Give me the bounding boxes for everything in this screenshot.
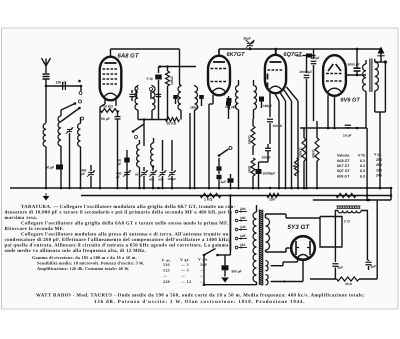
junction bus x291.5 (290, 187, 293, 190)
resistor 10 Kohm AVC (99, 107, 101, 111)
wire CD right down (366, 214, 368, 260)
potentiometer volume (295, 158, 299, 176)
svg-text:110: 110 (163, 262, 170, 267)
svg-text:6K7GT: 6K7GT (227, 52, 246, 58)
wire B+ down (356, 48, 359, 51)
svg-text:Sensibilità media: 18 microvol: Sensibilità media: 18 microvolt. Potenza… (37, 260, 144, 265)
wire cathode bus 6V6 (300, 127, 367, 129)
wire top B+ bus (219, 48, 382, 50)
junction bus x279 (278, 187, 281, 190)
svg-text:6Q7 GT: 6Q7 GT (337, 169, 351, 173)
wire bottom right bus (310, 278, 337, 280)
junction bus x172 (171, 187, 174, 190)
svg-text:—: — (199, 279, 205, 284)
svg-text:5Y3 GT: 5Y3 GT (288, 224, 311, 231)
wire IF1 bottom bus (138, 119, 167, 121)
junction bus x153 (152, 187, 155, 190)
capacitor 0.1 uF screen (158, 67, 160, 74)
svg-text:50µF: 50µF (244, 37, 251, 41)
junction bus x285.5 (284, 187, 287, 190)
svg-text:10 µF: 10 µF (343, 134, 352, 138)
capacitor 500 pF mains (222, 265, 229, 270)
power transformer filament winding 2 (266, 275, 269, 285)
svg-text:condensatore di 260 pF. Effett: condensatore di 260 pF. Effettuare l'all… (5, 237, 231, 243)
wire plate loop rect (286, 217, 320, 219)
wire tap bar bottom (229, 251, 231, 256)
wire HV bottom (266, 251, 287, 253)
wire 6V6 leads (327, 95, 329, 128)
power transformer filament winding 1 (266, 261, 269, 271)
svg-text:110: 110 (240, 243, 245, 247)
tube 6A8 GT (U1, converter) (100, 57, 122, 101)
resistor 500 Kohm (315, 138, 319, 161)
svg-text:6V6 GT: 6V6 GT (341, 98, 361, 104)
capacitor switch row b (217, 175, 222, 180)
svg-text:150KΩ: 150KΩ (299, 147, 303, 158)
junction bus x158.5 (157, 187, 160, 190)
junction bus x306.5 (305, 187, 308, 190)
junction bus x100 (99, 187, 102, 190)
wire bus second (81, 195, 391, 197)
trimmer 490 uF (124, 171, 129, 173)
IF2 cap left (173, 95, 178, 99)
capacitor 500 uF plate (306, 54, 312, 58)
svg-text:220: 220 (240, 207, 246, 211)
speaker arrow (380, 50, 382, 58)
power transformer primary (253, 212, 256, 282)
trimmer 50 uF top (247, 42, 253, 44)
capacitor 8 uF a (332, 263, 338, 265)
svg-text:Gamma di ricezione: da 185 a 5: Gamma di ricezione: da 185 a 580 m e da … (32, 255, 137, 260)
svg-text:TARATURA. — Collegare l'oscill: TARATURA. — Collegare l'oscillatore modu… (21, 204, 236, 210)
svg-text:6.3: 6.3 (360, 159, 365, 163)
trimmer padder 3 (160, 171, 165, 173)
coil L3 oscillator grid (78, 124, 81, 147)
svg-text:—: — (162, 273, 168, 278)
coil L4 oscillator (137, 144, 140, 167)
svg-text:densatore di 10.000 pF e tarar: densatore di 10.000 pF e tarare il secon… (5, 209, 233, 215)
resistor 50 Kohm diode (251, 126, 255, 146)
IF2 primary winding (178, 86, 181, 110)
capacitor 50 uF bypass (115, 116, 121, 118)
svg-text:V pl.: V pl. (374, 153, 382, 157)
wire CD left down (334, 214, 336, 262)
svg-text:125: 125 (163, 267, 170, 272)
svg-text:8µF: 8µF (371, 265, 377, 269)
tube 6K7 GT (U2, IF amplifier) (208, 56, 230, 96)
svg-text:400: 400 (149, 178, 154, 182)
switch osc contacts (132, 130, 135, 133)
capacitor 8 uF b (366, 261, 372, 263)
svg-text:100 µF: 100 µF (56, 81, 68, 85)
svg-text:Ritoccare la seconda MF.: Ritoccare la seconda MF. (5, 226, 64, 232)
wire speaker right (375, 61, 381, 63)
choke CD winding (338, 211, 361, 213)
svg-text:500 pF: 500 pF (232, 270, 242, 274)
svg-text:20000µF: 20000µF (300, 70, 313, 74)
svg-text:5000 µF: 5000 µF (348, 63, 360, 67)
resistor 10 Kohm screen (167, 67, 169, 72)
wire B+ out (303, 281, 310, 283)
resistor 1 Kohm (200, 193, 221, 197)
svg-text:1 KΩ: 1 KΩ (204, 198, 212, 202)
svg-text:500: 500 (297, 54, 303, 58)
junction bus x253 (252, 187, 255, 190)
svg-text:—: — (180, 273, 186, 278)
ground 500 pF (221, 278, 229, 283)
wire vert e (297, 101, 299, 188)
power transformer tap bar (229, 211, 231, 251)
capacitor 20000 uF (306, 57, 308, 73)
junction bus x258.5 (257, 187, 260, 190)
wire vert c (285, 101, 287, 188)
svg-text:50: 50 (135, 173, 139, 177)
svg-text:pF: pF (81, 172, 85, 176)
antenna series capacitor (43, 73, 50, 75)
svg-text:V gn.: V gn. (198, 257, 209, 262)
switch mains (203, 254, 206, 257)
svg-text:100 µF: 100 µF (273, 124, 283, 128)
wire screen bus y66 (159, 66, 197, 68)
junction bus x219 (218, 187, 221, 190)
tube 6V6 GT (U4, output) (323, 55, 346, 96)
capacitor 50 uF cathode block (56, 165, 63, 170)
capacitor switch row a (217, 166, 222, 171)
junction bus x238.5 (237, 187, 240, 190)
capacitor 500 uF g (313, 49, 315, 59)
svg-text:8µF: 8µF (338, 266, 344, 270)
svg-text:— 12: — 12 (180, 279, 191, 284)
svg-text:µF: µF (118, 162, 122, 166)
coil L1 antenna primary (43, 124, 46, 147)
IF2 secondary winding (195, 86, 198, 110)
svg-text:50 µF: 50 µF (46, 166, 55, 170)
wire mains entry (203, 255, 205, 285)
wire padder link (162, 140, 164, 150)
resistor 20 Kohm (166, 118, 180, 122)
svg-text:1µF: 1µF (221, 180, 227, 184)
trimmer 400 pF (88, 171, 94, 173)
tube 6Q7 GT (U3, detector/AF) (265, 55, 286, 93)
junction bus x139.5 (138, 187, 141, 190)
svg-text:20 KΩ: 20 KΩ (167, 121, 177, 125)
choke CD core (337, 205, 361, 207)
capacitor 10 uF cathode (347, 118, 349, 123)
capacitor 100 pF coupling (62, 82, 64, 90)
svg-text:180µF: 180µF (168, 177, 177, 181)
IF1 trim cap left (129, 93, 134, 95)
IF3 primary winding (236, 86, 239, 110)
svg-text:245: 245 (376, 174, 382, 178)
wire 6K7 plate riser (218, 49, 220, 56)
capacitor 100 uF diode a (267, 118, 273, 120)
svg-text:6V6 GT: 6V6 GT (337, 174, 350, 178)
capacitor 6K7 cathode (226, 101, 231, 106)
svg-text:poi quello d'entrata. Allinear: poi quello d'entrata. Allineare il circu… (5, 242, 229, 248)
wire 6A8 cathode leads (104, 100, 106, 105)
wire bottom right corner (377, 278, 391, 280)
junction bus x298 (297, 187, 300, 190)
svg-text:140: 140 (240, 225, 246, 229)
wire x367 down (366, 128, 368, 200)
junction bus x117.5 (116, 187, 119, 190)
svg-text:10000µF: 10000µF (263, 172, 276, 176)
antenna (42, 58, 51, 66)
svg-text:Valvola: Valvola (337, 154, 350, 158)
wire 5Y3 filament down (297, 257, 299, 263)
wire right edge vert (376, 200, 378, 279)
IF1 secondary winding (152, 86, 155, 110)
svg-text:220: 220 (163, 279, 170, 284)
wire antenna node (46, 85, 81, 87)
junction bus x61 (60, 187, 63, 190)
capacitor 10000 uF (256, 169, 262, 174)
trimmer padder 1 (141, 171, 146, 173)
junction bus x46 (45, 187, 48, 190)
trimmer input (67, 128, 72, 130)
IF1 trim cap right (156, 93, 161, 95)
IF2 cap right (199, 95, 204, 99)
wire 6V6 plate (346, 74, 366, 76)
resistor 1 Mohm vol (251, 158, 255, 176)
resistor mains drop (336, 193, 356, 197)
output transformer secondary (375, 62, 379, 91)
svg-text:Collegare l'oscillatore modula: Collegare l'oscillatore modulato alla pr… (21, 231, 229, 237)
IF3 secondary winding (254, 86, 257, 110)
junction bus x270 (269, 187, 272, 190)
svg-text:—: — (199, 273, 205, 278)
svg-text:µF: µF (116, 175, 120, 179)
wire HV top to plate loop (266, 213, 287, 215)
wire osc join (143, 120, 145, 147)
wire x391 vert (390, 188, 392, 200)
wire 6Q7 plate riser (275, 49, 277, 55)
svg-text:6A8 GT: 6A8 GT (118, 53, 140, 60)
svg-text:50 µF: 50 µF (101, 117, 110, 121)
wire filament 2 run (271, 281, 303, 283)
svg-text:160: 160 (240, 216, 246, 220)
svg-text:40 Ω: 40 Ω (345, 282, 352, 286)
svg-text:6A8 GT: 6A8 GT (337, 159, 350, 163)
svg-text:WATT RADIO - Mod. TAURUS - Ond: WATT RADIO - Mod. TAURUS - Onde medie da… (36, 293, 365, 299)
capacitor 1 uF b (228, 178, 234, 183)
node switch contact (80, 85, 83, 88)
svg-text:50: 50 (222, 93, 226, 97)
junction bus x127 (126, 187, 129, 190)
junction bus x304 (303, 187, 306, 190)
junction bus x317 (316, 187, 319, 190)
svg-text:Collegare l'oscillatore alla g: Collegare l'oscillatore alla griglia del… (21, 220, 229, 226)
resistor 40 ohm (337, 277, 359, 281)
svg-text:C D: C D (344, 219, 350, 223)
junction bus x380 (379, 187, 382, 190)
wire mains top (313, 199, 369, 201)
svg-text:190: 190 (376, 168, 382, 172)
svg-text:500: 500 (159, 178, 164, 182)
svg-text:10KΩ: 10KΩ (170, 76, 174, 85)
IF3 cap right (259, 97, 264, 102)
wire IF3 to diode (238, 119, 240, 188)
wire vert a (269, 100, 271, 117)
trimmer padder 4 (169, 171, 174, 173)
output transformer core (369, 59, 371, 93)
coil L2 antenna secondary (58, 116, 61, 146)
svg-text:10 KΩ: 10 KΩ (103, 104, 113, 108)
svg-text:Amplificazione: 126 db. Consum: Amplificazione: 126 db. Consumo totale: … (37, 266, 129, 271)
coil L5 oscillator tickler (151, 143, 154, 166)
tube 5Y3 GT (U5, rectifier) (291, 236, 315, 260)
power transformer HV secondary (266, 218, 270, 250)
capacitor 100 uF diode b (265, 147, 271, 149)
svg-text:— 3: — 3 (180, 262, 189, 267)
wire vert d (291, 101, 293, 188)
svg-text:125: 125 (240, 234, 246, 238)
wire antenna down (45, 86, 47, 123)
svg-text:6.3: 6.3 (360, 174, 365, 178)
svg-text:250: 250 (376, 163, 382, 167)
svg-text:100µF: 100µF (262, 156, 271, 160)
svg-text:136 dB. Potenza d'uscita: 3 W.: 136 dB. Potenza d'uscita: 3 W. Olan cost… (94, 299, 305, 305)
IF1 wire top (179, 84, 181, 86)
svg-text:6.3: 6.3 (360, 169, 365, 173)
IF1 primary winding (135, 86, 138, 110)
svg-text:—: — (199, 267, 205, 272)
junction bus x190 (189, 187, 192, 190)
wire tap bar top (229, 196, 231, 212)
svg-text:180µF: 180µF (263, 104, 272, 108)
junction bus x162.5 (161, 187, 164, 190)
wire 6K7 cathode (212, 95, 214, 104)
junction bus x80.5 (79, 187, 82, 190)
svg-text:500µF: 500µF (311, 56, 320, 60)
resistor 150 Kohm (302, 138, 306, 161)
IF3 cap left (227, 98, 232, 103)
junction bus x194.5 (193, 187, 196, 190)
svg-text:50KΩ: 50KΩ (312, 149, 316, 158)
wire vert b (278, 101, 280, 188)
switch tone (218, 154, 221, 157)
wire AVC left rail (99, 111, 101, 189)
power transformer primary taps (235, 210, 238, 213)
junction bus x230.5 (229, 187, 232, 190)
svg-text:160: 160 (200, 262, 207, 267)
trimmer padder 2 (150, 171, 155, 173)
capacitor 20 uF mid (124, 158, 130, 163)
wire 6Q7 leads down (269, 93, 271, 101)
svg-text:6.3: 6.3 (360, 164, 365, 168)
wire transformer bottoms (365, 92, 367, 129)
output transformer primary (363, 64, 366, 91)
wire ground bus main (10, 187, 391, 189)
svg-text:50KΩ: 50KΩ (248, 135, 252, 144)
svg-text:1MΩ: 1MΩ (248, 165, 252, 173)
svg-text:0.1µ: 0.1µ (147, 77, 154, 81)
svg-text:150: 150 (269, 198, 275, 202)
switch wave-band wand (61, 108, 80, 122)
wire 6A8 plate to IF1 (111, 48, 180, 50)
svg-text:6K7 GT: 6K7 GT (337, 164, 350, 168)
svg-text:onde medie va allineata solo a: onde medie va allineata solo alla freque… (5, 248, 147, 254)
ground antenna return (43, 196, 50, 201)
svg-text:180 µF: 180 µF (225, 105, 235, 109)
svg-text:250: 250 (376, 158, 382, 162)
svg-text:V fil.: V fil. (358, 154, 366, 158)
resistor 15 ohm (267, 193, 279, 197)
junction bus x69.5 (68, 187, 71, 190)
junction bus x144 (143, 187, 146, 190)
svg-text:— 5: — 5 (180, 267, 189, 272)
wire IF2 left down (189, 113, 191, 188)
capacitor 5000 uF (354, 67, 361, 69)
svg-text:180µF: 180µF (190, 106, 199, 110)
power transformer core (258, 210, 260, 286)
wire 5Y3 right plate (315, 246, 320, 248)
svg-text:massima resa.: massima resa. (5, 215, 38, 221)
junction bus x209 (208, 187, 211, 190)
